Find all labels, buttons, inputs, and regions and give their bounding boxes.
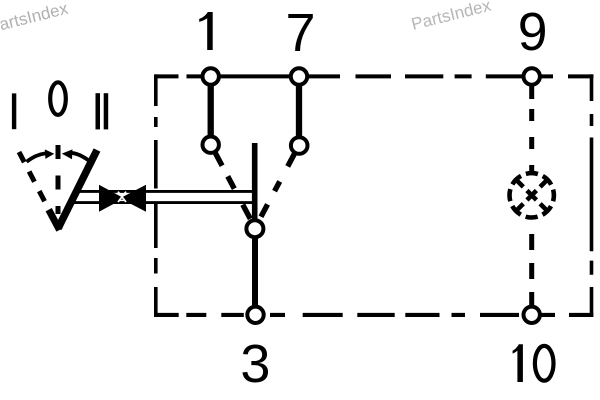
svg-text:3: 3 [240,334,270,394]
pivot contact circle above terminal 3 [246,220,263,237]
lamp L (dashed circle with X) [510,173,554,217]
label 10 [513,344,523,382]
lever position I (dashed) [19,152,47,206]
terminal 9 [524,68,540,84]
contact circle below terminal 7 [291,137,308,154]
watermark top-center [409,0,493,34]
wire stub terminal 7 to contact [296,80,302,138]
svg-text:PartsIndex: PartsIndex [409,0,493,34]
watermark top-left [0,0,70,37]
border right (dash-dot) [590,74,594,317]
label 1 [199,12,213,50]
terminal 3 [247,307,263,323]
coupling white notch [118,192,126,202]
lever position 0 (dashed) [56,145,61,214]
terminal 1 [203,68,219,84]
linkage coupling left arrowhead [99,185,124,212]
svg-text:9: 9 [518,3,548,62]
label 0 [50,82,66,115]
wire moving contact to terminal 3 [252,237,258,310]
travel arc left with arrowhead [27,153,46,161]
terminal 10 [524,307,540,323]
dashed contact path to contact 1 [215,152,251,219]
dashed contact path to contact 7 [260,152,295,219]
travel arc right with arrowhead [70,153,90,162]
linkage coupling right arrowhead [120,185,146,212]
lamp dashed wire to terminal 10 [529,234,534,306]
border top (dash-dot) [155,74,594,78]
linkage double line [73,190,254,193]
wire stub below terminal 9 [529,80,534,99]
border bottom (dash-dot) [155,313,593,317]
wire stub terminal 1 to contact [208,80,214,137]
lever tip left stroke [49,210,60,230]
terminal 7 [291,68,307,84]
lever (solid, position II) [58,150,97,229]
lamp dashed wire from terminal 9 [529,109,534,172]
svg-text:PartsIndex: PartsIndex [0,0,70,37]
label I [12,93,16,129]
border left (dash-dot) [154,74,158,317]
svg-text:7: 7 [285,3,315,63]
contact circle below terminal 1 [203,137,219,153]
moving contact arm (position 0, solid vertical) [252,143,258,219]
label II [96,93,101,129]
